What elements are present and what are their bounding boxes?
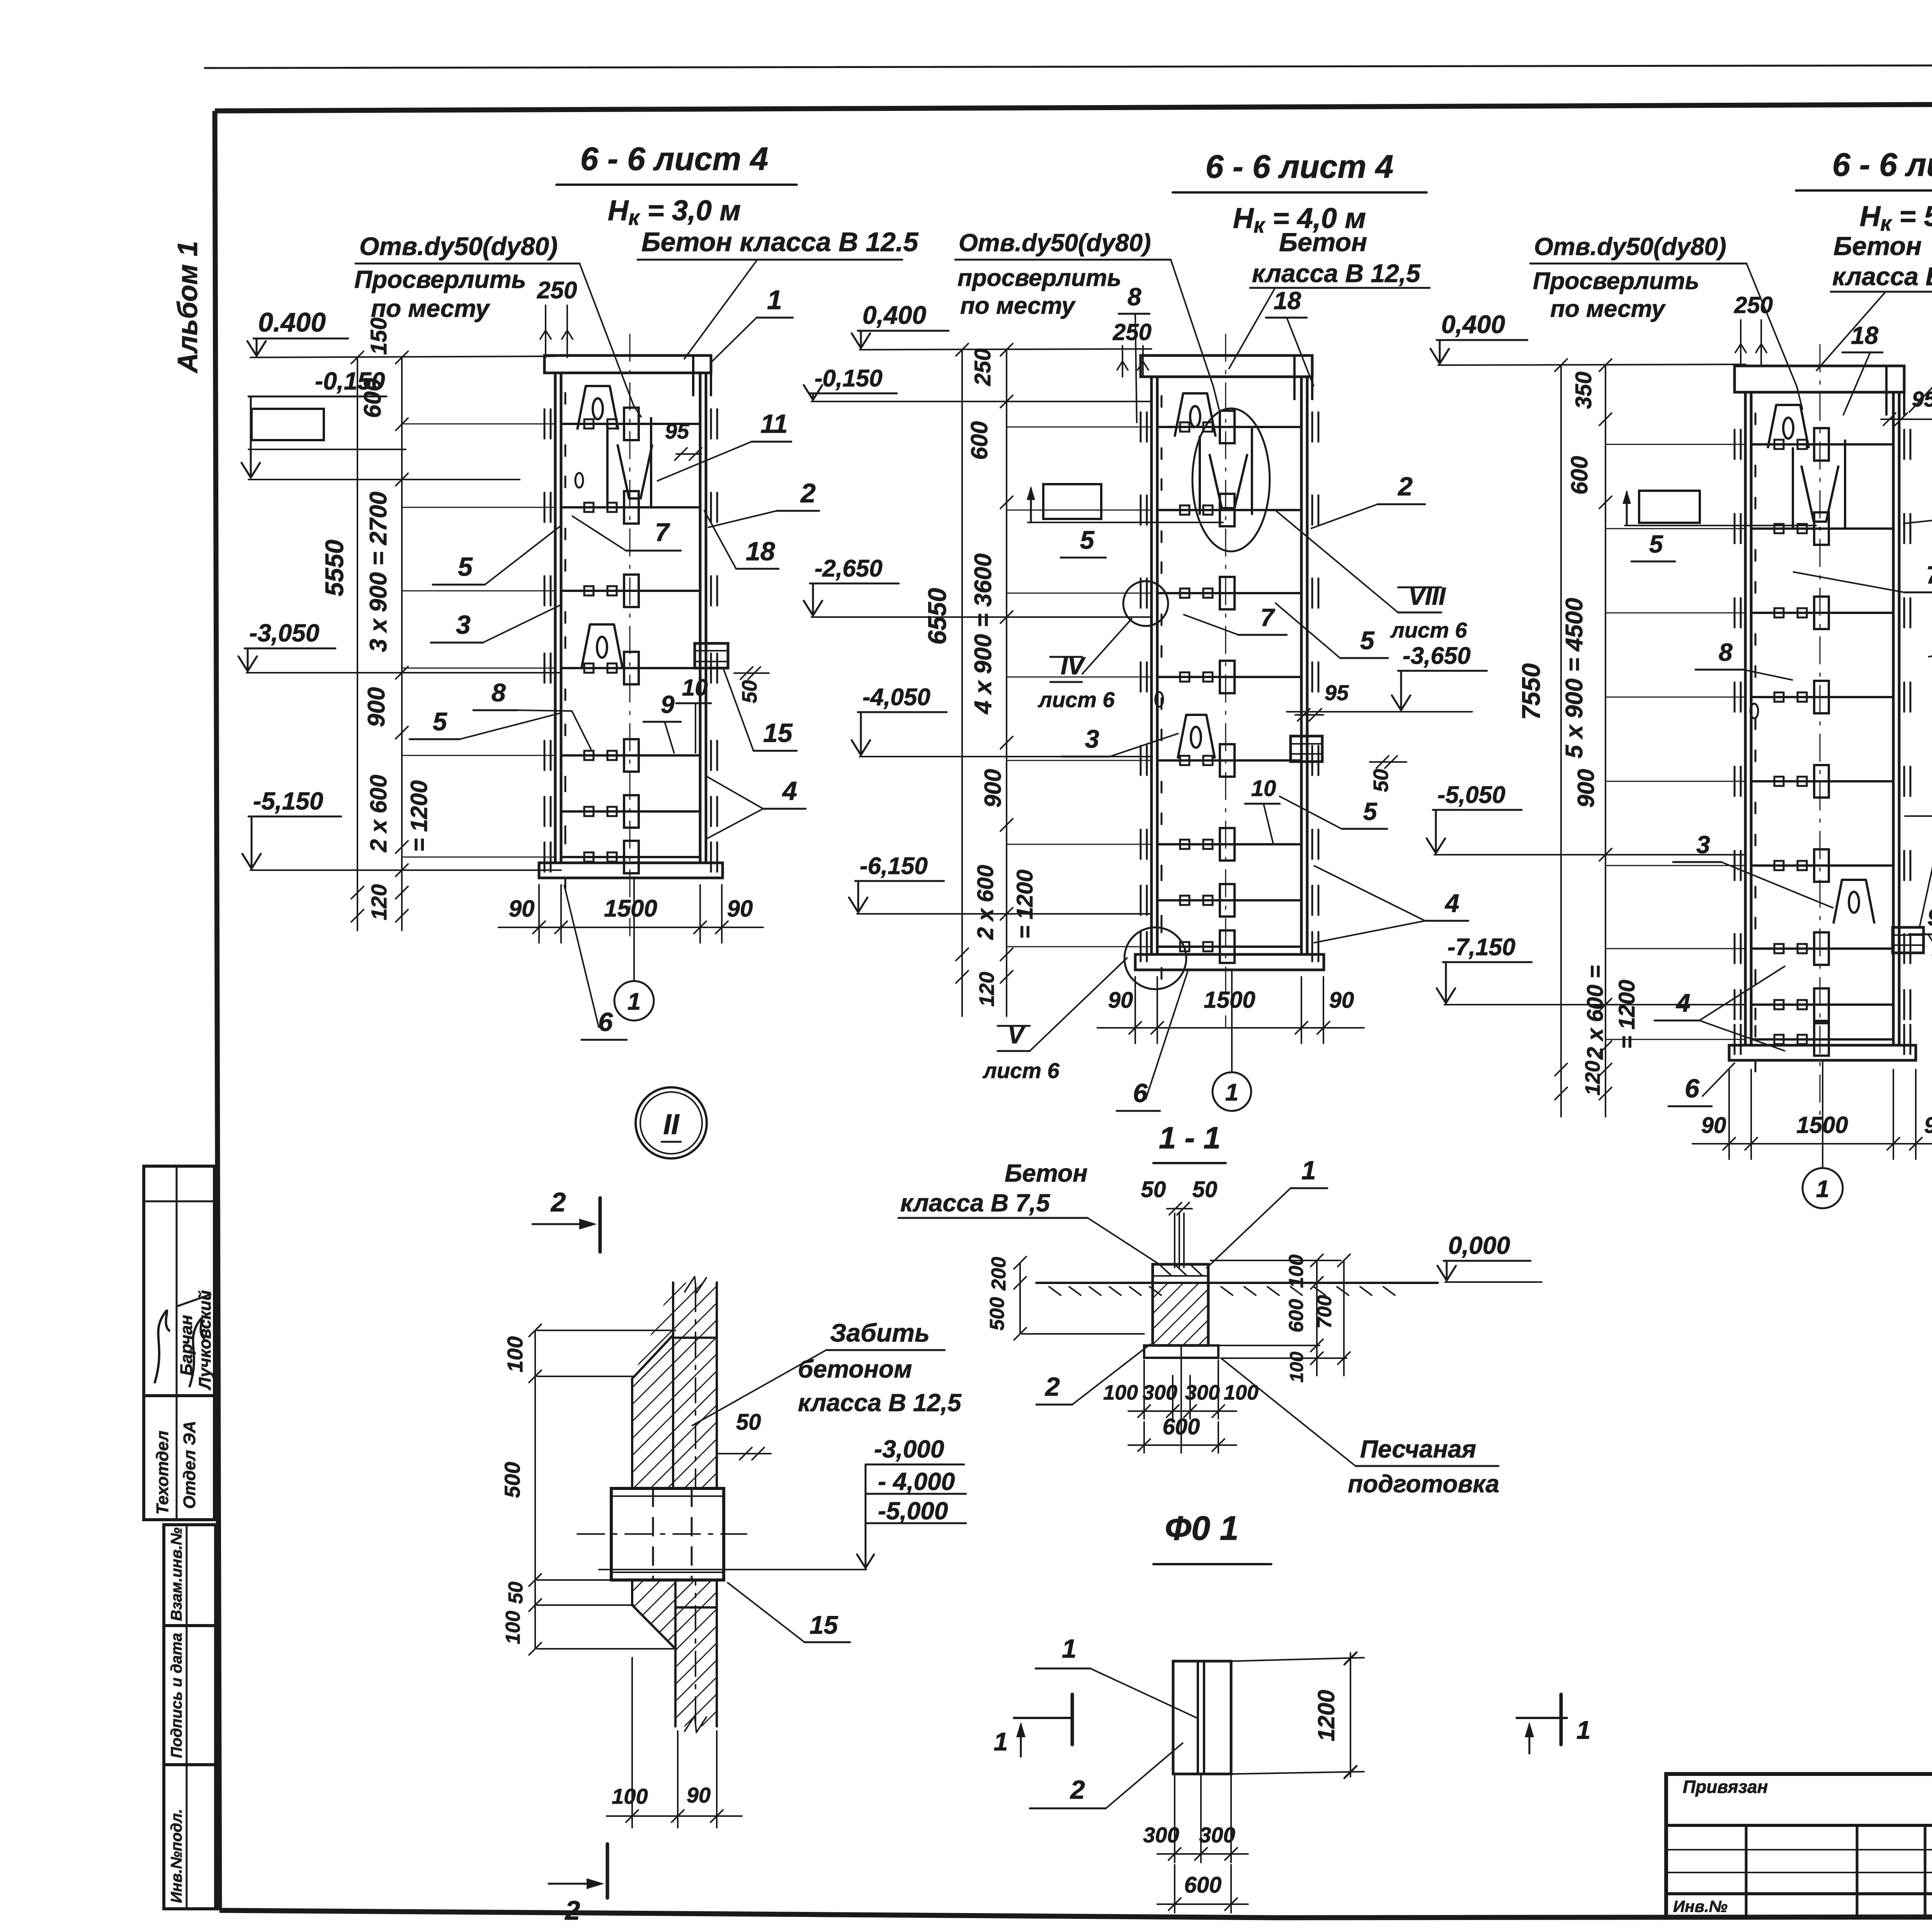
svg-text:5: 5: [1363, 798, 1378, 825]
svg-text:6: 6: [1685, 1074, 1700, 1103]
view1 leader to cap: [684, 260, 757, 359]
Ф01 dim 600: [1174, 1865, 1175, 1913]
pier rung: [1157, 676, 1301, 678]
left stamp boxes lower: [164, 1525, 216, 1909]
svg-text:500: 500: [986, 1297, 1009, 1331]
Ф01 dim 1200: [1233, 1658, 1364, 1661]
view2 level line -0,150: [811, 401, 1151, 402]
svg-text:100: 100: [1103, 1381, 1138, 1404]
pier rung: [561, 810, 700, 813]
pier rung: [1157, 946, 1301, 948]
svg-text:5: 5: [458, 552, 473, 582]
view1 anchor trapezoid lower: [582, 624, 622, 668]
svg-text:90: 90: [1924, 1113, 1932, 1138]
svg-text:150: 150: [366, 318, 391, 355]
view2 level line -3,650: [1287, 711, 1472, 713]
wall vertical centerline: [695, 1287, 696, 1723]
svg-text:Техотдел: Техотдел: [153, 1431, 172, 1515]
view1 pump funnel: [617, 444, 652, 498]
svg-text:подготовка: подготовка: [1348, 1470, 1499, 1498]
uzel II detail circle: [636, 1087, 707, 1158]
svg-text:3: 3: [1085, 724, 1099, 753]
svg-text:600: 600: [1566, 456, 1592, 495]
pier cap beam: [1141, 355, 1312, 377]
svg-text:5550: 5550: [320, 539, 349, 596]
pier rung: [1157, 509, 1301, 511]
pier rung: [1751, 443, 1893, 446]
svg-text:120: 120: [975, 972, 998, 1007]
view3 intermediate level lines: [1606, 444, 1745, 445]
ground hatch left: [1049, 1287, 1061, 1295]
pier rung: [561, 667, 700, 669]
svg-text:200: 200: [988, 1257, 1010, 1291]
svg-text:1: 1: [1301, 1156, 1316, 1185]
svg-text:-0,150: -0,150: [815, 365, 883, 392]
svg-text:90: 90: [509, 896, 535, 922]
svg-text:Нк = 5,0 м: Нк = 5,0 м: [1860, 200, 1932, 235]
svg-text:Альбом 1: Альбом 1: [172, 241, 203, 374]
svg-text:0,400: 0,400: [862, 301, 926, 329]
svg-text:2 x 600: 2 x 600: [366, 775, 391, 852]
view2 level line 0,400: [860, 349, 1151, 350]
svg-text:90: 90: [1329, 988, 1354, 1013]
pier rung: [1157, 426, 1301, 428]
svg-text:2: 2: [1397, 472, 1413, 501]
svg-text:Лучковский: Лучковский: [196, 1290, 214, 1390]
svg-text:Песчаная: Песчаная: [1360, 1435, 1476, 1463]
view2 small detail rectangle with arrow: [1043, 484, 1101, 519]
view2 datum circle 1: [1231, 970, 1233, 1071]
svg-text:Подпись и дата: Подпись и дата: [168, 1633, 185, 1758]
detail 1-1 base pad: [1144, 1345, 1218, 1358]
svg-text:900: 900: [363, 687, 390, 727]
svg-text:6 - 6 лист 4: 6 - 6 лист 4: [580, 141, 768, 177]
svg-text:8: 8: [1719, 638, 1733, 666]
svg-text:Ф0 1: Ф0 1: [1165, 1509, 1238, 1547]
svg-text:-3,050: -3,050: [249, 619, 319, 647]
view3 dim chain verticals: [1560, 365, 1562, 1117]
view3 pump funnel: [1801, 466, 1838, 522]
detail 1-1 bottom dim 100 300 300 100: [1143, 1360, 1145, 1419]
view2 anchor trapezoid lower: [1178, 715, 1215, 759]
svg-text:Взам.инв.№: Взам.инв.№: [168, 1527, 185, 1621]
pier rung: [1751, 1003, 1893, 1006]
detail 1-1 ground line: [1036, 1282, 1438, 1284]
svg-text:2: 2: [800, 478, 816, 508]
svg-text:120: 120: [367, 884, 391, 920]
svg-text:7: 7: [1260, 604, 1276, 631]
view1 level line -0,150: [248, 479, 520, 480]
svg-text:0,400: 0,400: [1441, 310, 1505, 338]
svg-text:= 1200: = 1200: [406, 780, 432, 852]
view3 pump pipes: [1792, 448, 1794, 529]
view1 pipe coupling item15: [695, 643, 728, 668]
svg-text:3: 3: [456, 610, 471, 639]
svg-text:2: 2: [1070, 1775, 1085, 1804]
svg-text:Просверлить: Просверлить: [354, 265, 526, 293]
svg-text:9: 9: [1927, 904, 1932, 931]
svg-text:2: 2: [565, 1895, 580, 1925]
view3 small oval on rail: [1750, 704, 1758, 718]
pier rung: [561, 754, 700, 757]
svg-text:-4,050: -4,050: [862, 684, 930, 711]
svg-text:1500: 1500: [604, 895, 657, 922]
Ф01 section mark 1 left: [1014, 1717, 1072, 1719]
svg-text:18: 18: [1851, 321, 1879, 349]
svg-text:100: 100: [612, 1784, 648, 1808]
view2 intermediate level lines: [1007, 427, 1151, 428]
view3 level line -0,150 right: [1907, 418, 1932, 420]
svg-text:-3,650: -3,650: [1403, 643, 1471, 669]
svg-text:18: 18: [746, 537, 775, 566]
svg-text:Бетон класса В 12.5: Бетон класса В 12.5: [641, 227, 919, 257]
svg-text:100: 100: [1224, 1381, 1259, 1404]
svg-text:Бетон: Бетон: [1279, 228, 1367, 257]
view1 small oval on rail: [575, 473, 583, 488]
svg-text:6550: 6550: [923, 588, 951, 645]
pier centerline: [1820, 345, 1821, 1118]
svg-text:Бетон: Бетон: [1833, 231, 1922, 261]
sleeve centerline: [577, 1533, 747, 1535]
svg-text:2 x 600 =: 2 x 600 =: [1583, 965, 1608, 1060]
svg-text:90: 90: [687, 1783, 711, 1807]
svg-text:4: 4: [1675, 988, 1690, 1017]
pier rung: [1157, 843, 1301, 845]
view1 level line -5,150: [250, 869, 561, 871]
view2 detail circle IV on rail: [1123, 581, 1168, 626]
view1 dim chain verticals: [357, 357, 358, 930]
svg-text:1: 1: [1225, 1079, 1238, 1106]
svg-text:50: 50: [1369, 769, 1393, 792]
svg-text:18: 18: [1274, 287, 1301, 315]
svg-text:10: 10: [1251, 776, 1276, 801]
svg-text:50: 50: [505, 1582, 527, 1604]
svg-text:лист 6: лист 6: [982, 1058, 1060, 1083]
section mark 2 lower: [606, 1844, 609, 1898]
svg-text:250: 250: [1734, 292, 1773, 318]
section mark 2 upper: [599, 1198, 602, 1252]
pier rung: [1751, 612, 1893, 614]
pier centerline: [629, 334, 631, 936]
svg-text:Отдел ЭА: Отдел ЭА: [180, 1421, 199, 1509]
view2 leader отв: [1171, 260, 1219, 410]
svg-text:100: 100: [1285, 1255, 1308, 1288]
svg-text:4: 4: [1444, 889, 1459, 917]
stamp signatures upper: [155, 1311, 170, 1383]
svg-text:1: 1: [1062, 1634, 1077, 1663]
view2 pump pipes: [1199, 437, 1201, 514]
svg-text:1: 1: [1816, 1176, 1829, 1202]
view2 pump funnel: [1209, 454, 1247, 508]
svg-text:5: 5: [1360, 626, 1375, 655]
view2 dim chain verticals: [961, 350, 963, 1016]
view3 level line -5,050: [1434, 854, 1745, 855]
Ф01 dim 300 300: [1174, 1776, 1175, 1862]
svg-text:600: 600: [1285, 1299, 1308, 1333]
svg-text:II: II: [663, 1108, 680, 1140]
view2 detail circle V at base: [1124, 927, 1186, 989]
svg-text:95: 95: [1912, 387, 1932, 411]
svg-text:-2,650: -2,650: [815, 555, 883, 582]
svg-text:1500: 1500: [1204, 987, 1255, 1013]
view3 level line -7,150: [1444, 1004, 1745, 1005]
detail 1-1 bottom dim 600: [1143, 1422, 1145, 1453]
svg-text:0.400: 0.400: [258, 307, 326, 337]
uzel II bottom dims 100 90: [631, 1658, 633, 1828]
pier rung: [1157, 899, 1301, 901]
svg-text:95: 95: [1325, 680, 1349, 705]
view1 anchor trapezoid upper: [577, 386, 618, 430]
pier rung: [561, 506, 700, 509]
pier right rail: [1300, 377, 1303, 954]
pier rung: [1751, 780, 1893, 782]
view1 datum circle 1: [633, 878, 635, 981]
Ф01 section mark 1 right: [1517, 1717, 1567, 1719]
detail 1-1 right dim chains: [1316, 1260, 1318, 1376]
svg-text:250: 250: [970, 349, 995, 386]
view2 big detail circle VIII: [1192, 408, 1270, 551]
pier right rail: [1892, 392, 1895, 1045]
svg-text:2: 2: [1044, 1372, 1060, 1401]
svg-text:50: 50: [1192, 1177, 1218, 1202]
svg-text:-3,000: -3,000: [874, 1435, 944, 1463]
svg-text:120: 120: [1581, 1061, 1604, 1095]
wall line below sleeve: [675, 1606, 717, 1609]
svg-text:100: 100: [1287, 1352, 1307, 1383]
pier right rail: [699, 373, 702, 863]
view1 intermediate level lines: [403, 423, 555, 425]
view2 bottom dim 90 1500 90: [1134, 977, 1136, 1043]
svg-text:500: 500: [500, 1462, 524, 1498]
view1 pump pipes: [606, 425, 609, 506]
svg-text:Забить: Забить: [830, 1318, 930, 1347]
svg-text:7: 7: [655, 518, 670, 546]
pier rung: [1157, 592, 1301, 594]
view2 pipe coupling: [1291, 736, 1322, 762]
view1 bottom dim 90 1500 90: [538, 885, 540, 943]
svg-text:5: 5: [433, 707, 447, 736]
svg-text:-6,150: -6,150: [860, 853, 928, 879]
svg-text:95: 95: [665, 419, 689, 443]
Ф01 block plan: [1173, 1661, 1231, 1774]
svg-text:8: 8: [1128, 283, 1141, 311]
svg-text:1: 1: [628, 988, 641, 1015]
pier rung: [1751, 1038, 1893, 1041]
svg-text:600: 600: [1163, 1414, 1200, 1439]
svg-text:1: 1: [994, 1727, 1008, 1756]
svg-text:2: 2: [550, 1187, 566, 1217]
svg-text:100: 100: [503, 1336, 527, 1372]
svg-text:250: 250: [1112, 319, 1151, 345]
svg-text:700: 700: [1313, 1295, 1336, 1329]
pier centerline: [1225, 334, 1226, 1028]
svg-text:6: 6: [1133, 1078, 1148, 1108]
pier base plate: [1135, 954, 1324, 970]
view3 anchor trapezoid lower: [1833, 880, 1874, 923]
svg-text:8: 8: [492, 678, 506, 707]
detail 1-1 pier: [1153, 1264, 1208, 1345]
svg-text:600: 600: [359, 378, 386, 418]
svg-text:4 x 900 = 3600: 4 x 900 = 3600: [970, 553, 997, 714]
svg-text:350: 350: [1571, 372, 1596, 409]
svg-text:Бетон: Бетон: [1005, 1159, 1088, 1187]
pier rung: [1751, 527, 1893, 530]
svg-text:бетоном: бетоном: [798, 1355, 912, 1383]
view1 leader отв: [580, 264, 641, 417]
uzel II dim chain left: [534, 1330, 536, 1649]
svg-text:2 x 600: 2 x 600: [973, 865, 998, 940]
view1 level line 0.400: [250, 356, 555, 357]
svg-text:класса В 12,5: класса В 12,5: [1252, 259, 1421, 287]
svg-text:10: 10: [682, 675, 708, 701]
view3 anchor trapezoid upper: [1768, 405, 1809, 448]
wall hatched strip: [672, 1282, 674, 1335]
view3 pipe coupling: [1893, 927, 1923, 953]
pipe sleeve through wall: [611, 1488, 724, 1580]
svg-text:50: 50: [736, 1410, 761, 1435]
view2 anchor trapezoid upper: [1175, 393, 1216, 437]
svg-text:7550: 7550: [1517, 663, 1545, 720]
svg-text:класса В 7,5: класса В 7,5: [900, 1189, 1050, 1217]
svg-text:100: 100: [502, 1611, 524, 1645]
svg-text:5 x 900 = 4500: 5 x 900 = 4500: [1561, 598, 1588, 758]
svg-text:= 1200: = 1200: [1012, 869, 1037, 939]
svg-text:Инв.№подл.: Инв.№подл.: [168, 1809, 185, 1903]
svg-text:250: 250: [537, 277, 577, 304]
wall break marks: [684, 1277, 707, 1293]
svg-text:90: 90: [727, 896, 753, 922]
svg-text:лист 6: лист 6: [1037, 687, 1115, 712]
pier rung: [1157, 759, 1301, 762]
svg-text:класса В 12,5: класса В 12,5: [798, 1389, 962, 1417]
svg-text:600: 600: [1184, 1872, 1222, 1898]
svg-text:Отв.dy50(dy80): Отв.dy50(dy80): [959, 229, 1151, 257]
svg-text:1: 1: [767, 285, 782, 315]
svg-text:50: 50: [738, 680, 761, 703]
pier rung: [1751, 947, 1893, 950]
view3 leader отв: [1747, 264, 1803, 410]
view3 datum circle 1: [1822, 1060, 1823, 1168]
svg-text:6 - 6 лист 4: 6 - 6 лист 4: [1206, 148, 1393, 185]
svg-text:50: 50: [1141, 1177, 1166, 1202]
outer page border top: [205, 64, 1932, 68]
svg-text:7: 7: [1926, 561, 1932, 589]
svg-text:-5,000: -5,000: [878, 1497, 948, 1525]
svg-text:3 x 900 = 2700: 3 x 900 = 2700: [365, 492, 392, 652]
pier rung: [1751, 864, 1893, 867]
detail 1-1 rebar verticals: [1174, 1213, 1175, 1267]
svg-text:Отв.dy50(dy80): Отв.dy50(dy80): [1534, 233, 1726, 260]
pier cap beam: [1735, 366, 1904, 392]
view2 level line -4,050: [860, 756, 1152, 757]
wall top line: [673, 1337, 717, 1339]
svg-text:3: 3: [1696, 831, 1710, 859]
view2 level line -6,150: [857, 913, 1152, 915]
svg-text:1 - 1: 1 - 1: [1159, 1121, 1221, 1155]
svg-text:300: 300: [1143, 1381, 1177, 1404]
detail 1-1 left dim chain: [1019, 1263, 1021, 1334]
svg-text:-5,150: -5,150: [253, 787, 323, 815]
pier base plate: [1729, 1045, 1916, 1060]
view3 bottom dim 90 1500 90: [1728, 1070, 1730, 1159]
view3 level line 0,400: [1438, 364, 1745, 365]
svg-text:лист 6: лист 6: [1390, 618, 1468, 642]
svg-text:11: 11: [760, 409, 788, 439]
svg-text:-5,050: -5,050: [1437, 782, 1505, 808]
svg-text:по месту: по месту: [1550, 296, 1666, 322]
svg-text:900: 900: [980, 769, 1006, 808]
svg-text:класса В 12,5: класса В 12,5: [1832, 262, 1932, 291]
svg-text:300: 300: [1199, 1823, 1235, 1847]
pier cap beam: [544, 355, 711, 373]
svg-text:- 4,000: - 4,000: [878, 1468, 955, 1495]
svg-text:Просверлить: Просверлить: [1533, 268, 1699, 294]
svg-text:300: 300: [1143, 1823, 1179, 1847]
svg-text:Привязан: Привязан: [1683, 1777, 1768, 1797]
pier rung: [561, 423, 700, 425]
view2 level line -2,650: [811, 616, 1152, 618]
svg-text:15: 15: [763, 718, 793, 748]
view1 level line -3,050: [247, 672, 561, 673]
ground hatch right: [1221, 1287, 1233, 1295]
left stamp box upper (Техотдел): [144, 1166, 214, 1520]
pier left rail: [1744, 392, 1747, 1045]
svg-text:6: 6: [598, 1007, 613, 1037]
pier left rail: [1150, 377, 1153, 954]
svg-text:4: 4: [782, 776, 797, 806]
svg-text:5: 5: [1080, 526, 1095, 554]
svg-text:300: 300: [1185, 1381, 1220, 1404]
svg-text:5: 5: [1649, 530, 1663, 558]
svg-text:900: 900: [1573, 769, 1599, 808]
svg-text:1200: 1200: [1313, 1690, 1339, 1741]
svg-text:просверлить: просверлить: [957, 265, 1121, 291]
svg-text:1: 1: [1577, 1716, 1591, 1744]
svg-text:9: 9: [661, 690, 675, 718]
svg-text:90: 90: [1701, 1113, 1726, 1138]
pier rung: [1751, 696, 1893, 698]
svg-text:90: 90: [1108, 988, 1133, 1013]
svg-text:-7,150: -7,150: [1447, 934, 1515, 961]
pier rung: [561, 856, 700, 858]
svg-text:Отв.dy50(dy80): Отв.dy50(dy80): [359, 232, 558, 260]
view3 level line -4,650: [1905, 815, 1932, 817]
drawing frame border: [215, 101, 1932, 111]
title block left sub-table: [1666, 1774, 1932, 1918]
svg-text:15: 15: [810, 1611, 838, 1639]
pier base plate: [539, 863, 723, 878]
svg-text:6 - 6 лист 4: 6 - 6 лист 4: [1832, 146, 1932, 183]
svg-text:600: 600: [966, 421, 992, 460]
view3 small detail rectangle with arrow: [1639, 491, 1700, 523]
svg-text:по месту: по месту: [960, 293, 1076, 319]
pier rung: [561, 590, 700, 592]
svg-text:Инв.№: Инв.№: [1673, 1897, 1728, 1915]
svg-text:0,000: 0,000: [1448, 1231, 1510, 1259]
view2 small oval on rail: [1155, 692, 1163, 707]
svg-text:= 1200: = 1200: [1614, 980, 1639, 1049]
pier left rail: [554, 373, 557, 863]
view1 small detail rectangle: [252, 409, 324, 440]
svg-text:Нк = 3,0 м: Нк = 3,0 м: [608, 194, 741, 230]
